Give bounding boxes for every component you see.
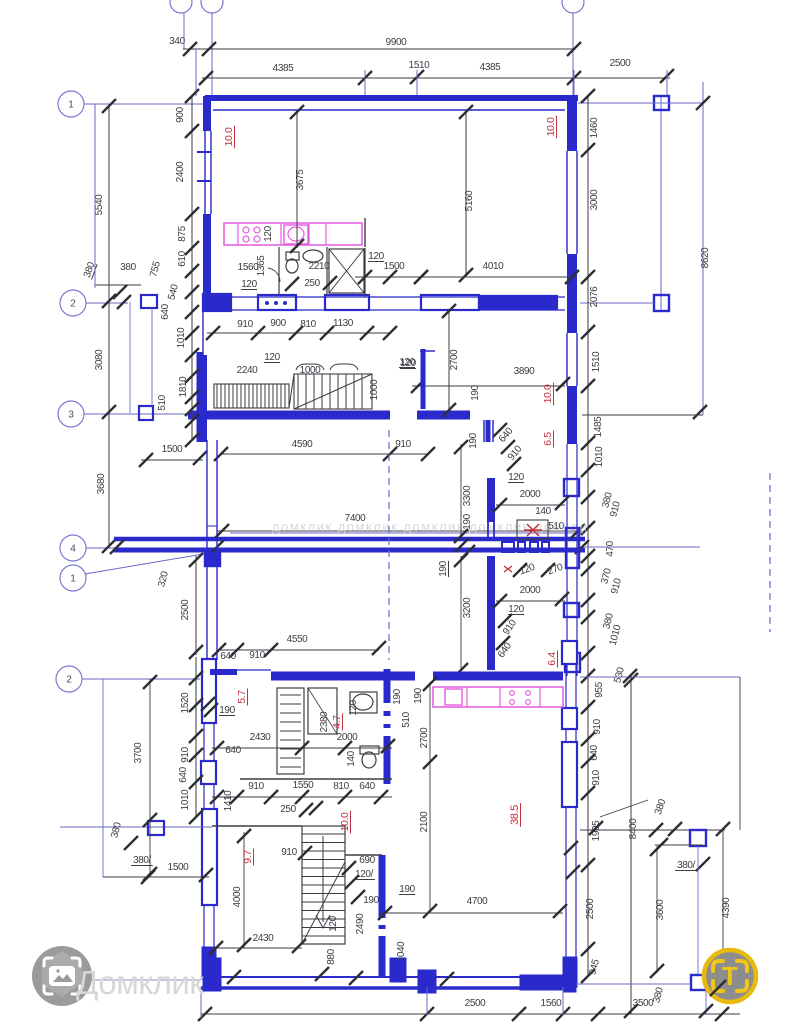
wall pier left 3 [202, 809, 217, 905]
svg-text:3890: 3890 [514, 366, 535, 377]
svg-text:340: 340 [169, 36, 185, 47]
dim 4000 line [243, 832, 245, 948]
axis span dims left [108, 104, 110, 303]
logo T bottom-right [704, 950, 756, 1002]
column bottom right [691, 975, 706, 990]
svg-text:3080: 3080 [94, 349, 105, 370]
svg-text:2400: 2400 [175, 161, 186, 182]
small wall right of stairs [421, 349, 426, 409]
bath walls thin [278, 247, 280, 295]
svg-text:910: 910 [592, 718, 603, 734]
svg-text:910: 910 [591, 769, 602, 785]
dim line 2430 [212, 747, 392, 749]
dim 7400 [217, 530, 582, 532]
column right axis-2 [654, 295, 669, 311]
svg-text:2500: 2500 [585, 898, 596, 919]
380 dims near axis2 [95, 284, 141, 286]
outer wall right upper (axis Б) [567, 96, 577, 151]
dim 3890 [412, 385, 565, 387]
svg-text:1: 1 [68, 100, 74, 111]
svg-text:1500: 1500 [162, 444, 183, 455]
svg-text:470: 470 [605, 540, 616, 556]
svg-text:380: 380 [120, 262, 136, 273]
wall pier left 1 [202, 659, 216, 723]
axis circle 3 left [58, 401, 84, 427]
axis2 ext right [580, 302, 654, 304]
svg-text:120: 120 [508, 604, 524, 615]
svg-text:3300: 3300 [462, 485, 473, 506]
margin line [94, 104, 96, 288]
svg-text:380/: 380/ [677, 860, 695, 871]
dim line 8400 [630, 677, 632, 1014]
svg-text:2500: 2500 [610, 58, 631, 69]
bottom dim row [201, 1013, 740, 1015]
svg-text:8400: 8400 [628, 818, 639, 839]
window lines top wall [237, 669, 271, 671]
svg-text:6.4: 6.4 [546, 652, 558, 666]
wall pier 4010 [479, 296, 557, 309]
svg-text:120: 120 [400, 358, 416, 369]
svg-text:1130: 1130 [333, 318, 354, 329]
svg-text:3000: 3000 [589, 189, 600, 210]
stair room left wall T [197, 352, 204, 442]
axis circle 1 left [58, 91, 84, 117]
interior wall y826 [212, 825, 302, 827]
stairs lower [302, 826, 345, 944]
axis circle 1b left [60, 565, 86, 591]
extension stubs top [364, 70, 366, 96]
long wall axis 1 [114, 548, 585, 553]
svg-text:2490: 2490 [355, 913, 366, 934]
svg-text:910: 910 [248, 781, 264, 792]
lower kitchen counter magenta [433, 687, 563, 707]
svg-text:4385: 4385 [480, 62, 501, 73]
wall x491 upper part [487, 478, 495, 522]
wall pier left 2 [201, 761, 216, 784]
svg-text:1010: 1010 [594, 446, 605, 467]
svg-text:1500: 1500 [168, 862, 189, 873]
bath block wall x387 [384, 669, 391, 784]
right 4390 upper part [739, 677, 741, 830]
right column line [660, 96, 662, 311]
lower flat top ext [580, 676, 740, 678]
svg-text:1485: 1485 [593, 416, 604, 437]
room dim 3675 [296, 110, 298, 248]
dim row 910/1550/810/640 [212, 796, 392, 798]
lower flat bottom wall hollow [201, 976, 576, 978]
svg-text:640: 640 [359, 781, 375, 792]
svg-text:190: 190 [470, 384, 481, 400]
svg-text:810: 810 [333, 781, 349, 792]
toilet upper [286, 252, 299, 260]
leader axis 2 [86, 302, 128, 304]
leader axis B [211, 13, 213, 96]
hatch box [517, 520, 548, 539]
svg-text:250: 250 [304, 278, 320, 289]
dim line 4390 [722, 829, 724, 989]
leader axis 1b diagonal [85, 552, 215, 574]
svg-text:2430: 2430 [250, 732, 271, 743]
dim 2700 interior [448, 309, 450, 412]
svg-text:4010: 4010 [483, 261, 504, 272]
svg-text:10.0: 10.0 [339, 812, 351, 831]
dim 2500 below axis4 [195, 556, 197, 655]
leader axis 3 [84, 413, 201, 415]
svg-text:3600: 3600 [655, 899, 666, 920]
svg-text:140: 140 [346, 750, 357, 766]
wardrobe tall [277, 688, 304, 774]
counter right edge [364, 218, 366, 247]
axis circle 4 left [60, 535, 86, 561]
leader axis 1 [84, 103, 207, 105]
dim line 1500/120 [355, 276, 421, 278]
svg-text:2380: 2380 [319, 711, 330, 732]
svg-text:1410: 1410 [223, 790, 234, 811]
axis circle 2b left [56, 666, 82, 692]
wall corner left bottom [202, 947, 216, 979]
svg-text:4: 4 [70, 544, 76, 555]
landing wall [345, 854, 382, 856]
window dash 1 [197, 151, 211, 153]
svg-text:140: 140 [535, 506, 551, 517]
svg-text:190: 190 [399, 884, 415, 895]
stair flight upper [214, 384, 289, 408]
bottom wall corner block right [563, 958, 576, 992]
outer wall top [205, 95, 578, 101]
svg-text:380/: 380/ [133, 855, 151, 866]
axis circle 2 left [60, 290, 86, 316]
axis circle top-left B [201, 0, 223, 13]
sink lower kitchen [445, 689, 462, 705]
dim 4010 [421, 276, 572, 278]
svg-text:120: 120 [328, 915, 339, 931]
svg-text:4550: 4550 [287, 634, 308, 645]
svg-text:190: 190 [413, 687, 424, 703]
svg-text:1510: 1510 [591, 351, 602, 372]
window box 1130a [325, 295, 369, 310]
leader axis A down [183, 13, 185, 49]
svg-text:4385: 4385 [273, 63, 294, 74]
svg-text:1040: 1040 [396, 941, 407, 962]
svg-text:1500: 1500 [384, 261, 405, 272]
overall 8620 line [702, 82, 704, 415]
svg-text:120: 120 [368, 251, 384, 262]
svg-text:120: 120 [508, 472, 524, 483]
bottom wall pier mid [418, 970, 436, 993]
svg-text:640: 640 [178, 766, 189, 782]
svg-text:190: 190 [392, 688, 403, 704]
dim 4700 [381, 912, 563, 914]
svg-text:900: 900 [175, 106, 186, 122]
band thin top [230, 532, 585, 534]
svg-text:9900: 9900 [386, 37, 407, 48]
window dash 2 [197, 180, 211, 182]
axis circle top-left A [170, 0, 192, 13]
lower-left margin dims [102, 679, 104, 877]
svg-text:2: 2 [66, 675, 72, 686]
svg-text:1010: 1010 [180, 789, 191, 810]
wall pier right 2 [562, 708, 577, 729]
svg-text:1810: 1810 [178, 376, 189, 397]
svg-text:190: 190 [363, 895, 379, 906]
dim row 4550 [219, 649, 379, 651]
slash over logo [710, 980, 726, 996]
bottom ext lines [200, 987, 202, 1018]
bottom wall block right [520, 975, 573, 990]
svg-text:3680: 3680 [96, 473, 107, 494]
svg-text:910: 910 [281, 847, 297, 858]
svg-text:4700: 4700 [467, 896, 488, 907]
svg-text:190: 190 [438, 560, 449, 576]
ext line left [60, 826, 212, 828]
svg-text:640: 640 [220, 651, 236, 662]
svg-text:2076: 2076 [589, 286, 600, 307]
svg-text:910: 910 [395, 439, 411, 450]
wall x491 lower part [487, 556, 495, 670]
washbasin upper [303, 250, 323, 262]
lower flat right wall hollow [565, 641, 567, 957]
line y830 [580, 829, 725, 831]
svg-text:3: 3 [68, 410, 74, 421]
dim row 4590/910 [221, 453, 428, 455]
wall corner right bottom [563, 957, 577, 987]
svg-text:1510: 1510 [409, 60, 430, 71]
svg-text:4000: 4000 [232, 886, 243, 907]
svg-text:120: 120 [264, 352, 280, 363]
bottom wall pier stair [390, 958, 406, 982]
leader axis 4 [86, 547, 228, 549]
right wall dim line lower flat [587, 676, 589, 976]
column right lower [690, 830, 706, 846]
svg-text:10.0: 10.0 [542, 384, 554, 403]
svg-text:2700: 2700 [419, 727, 430, 748]
kitchen counter magenta upper [224, 223, 362, 245]
stair flight 2 upper [294, 374, 372, 409]
svg-text:4.7: 4.7 [331, 715, 343, 729]
svg-text:1000: 1000 [300, 365, 321, 376]
svg-text:510: 510 [401, 711, 412, 727]
stair diagonal 2 [294, 374, 372, 409]
svg-text:10.0: 10.0 [545, 117, 557, 136]
svg-text:10.0: 10.0 [223, 127, 235, 146]
svg-text:5.7: 5.7 [236, 690, 248, 704]
svg-text:900: 900 [270, 318, 286, 329]
svg-text:2700: 2700 [449, 349, 460, 370]
room dim 5160 [465, 110, 467, 277]
dashed right [769, 473, 771, 632]
wall pier left [203, 294, 231, 311]
svg-text:510: 510 [548, 521, 564, 532]
right wall dim line [587, 96, 589, 676]
wall pier right 1 [562, 641, 577, 664]
washing machine X-box [329, 249, 364, 293]
svg-text:610: 610 [177, 250, 188, 266]
column tie lines [129, 302, 131, 413]
band ext right [585, 546, 700, 548]
stub wall lines [483, 420, 485, 442]
dim line 3300 [460, 444, 462, 539]
svg-text:640: 640 [225, 745, 241, 756]
svg-text:1550: 1550 [293, 780, 314, 791]
bottom wall corner block left [203, 958, 221, 991]
column top-right [654, 96, 669, 110]
svg-text:2000: 2000 [520, 585, 541, 596]
dim 1500 stair left [141, 459, 203, 461]
svg-text:910: 910 [249, 650, 265, 661]
dim line 3600 [656, 846, 658, 973]
cabinet 2 [308, 688, 337, 734]
svg-text:910: 910 [237, 319, 253, 330]
lower flat top wall [210, 669, 237, 675]
dashed centerline vertical [388, 430, 390, 660]
watermark icon bottom-left [85, 979, 201, 981]
column left axis3 [139, 406, 153, 420]
dim row 910/900/810/1130 [207, 332, 390, 334]
svg-text:4590: 4590 [292, 439, 313, 450]
svg-text:875: 875 [177, 225, 188, 241]
svg-text:2430: 2430 [253, 933, 274, 944]
svg-text:1: 1 [70, 574, 76, 585]
svg-text:190: 190 [219, 705, 235, 716]
svg-text:2: 2 [70, 299, 76, 310]
svg-text:120: 120 [241, 279, 257, 290]
svg-text:3675: 3675 [295, 169, 306, 190]
svg-text:4390: 4390 [721, 897, 732, 918]
bottom wall ext right [576, 983, 691, 985]
long wall axis 4 [114, 537, 585, 542]
leader axis 2b [82, 678, 200, 680]
svg-text:38.5: 38.5 [509, 805, 521, 825]
svg-text:2210: 2210 [309, 261, 330, 272]
svg-text:1460: 1460 [589, 117, 600, 138]
interior dim line kitchen [429, 682, 431, 913]
column left lower [148, 821, 164, 835]
svg-text:5160: 5160 [464, 190, 475, 211]
svg-text:1000: 1000 [369, 379, 380, 400]
washbasin lower [350, 692, 377, 713]
svg-text:8620: 8620 [700, 247, 711, 268]
stair-right wall lower [379, 855, 386, 976]
svg-text:190: 190 [468, 432, 479, 448]
top wall ext right [578, 102, 703, 104]
stair diagonal lower [302, 862, 345, 944]
svg-text:640: 640 [589, 744, 600, 760]
bath block bottom wall [240, 778, 392, 780]
svg-text:810: 810 [300, 319, 316, 330]
hob circles [243, 227, 249, 233]
ext line y415 right [582, 414, 703, 416]
dim line 3200 [460, 556, 462, 673]
svg-text:880: 880 [326, 948, 337, 964]
svg-text:510: 510 [157, 394, 168, 410]
svg-text:3700: 3700 [133, 742, 144, 763]
vertical wall lines mid [206, 440, 208, 556]
svg-text:1010: 1010 [176, 327, 187, 348]
left wall dim line [191, 96, 193, 440]
column left axis2 [141, 295, 157, 308]
svg-text:640: 640 [160, 303, 171, 319]
lower flat outer wall left hollow [203, 659, 205, 958]
svg-text:2240: 2240 [237, 365, 258, 376]
svg-text:120: 120 [263, 225, 274, 241]
svg-text:2000: 2000 [520, 489, 541, 500]
column ext line [697, 846, 699, 975]
svg-text:Домклик: Домклик [76, 964, 204, 1001]
leader axis Б [572, 13, 574, 96]
band door glyphs [502, 542, 514, 552]
dim row 9900/340 [183, 48, 574, 50]
svg-text:T: T [722, 961, 738, 991]
svg-text:1560: 1560 [541, 998, 562, 1009]
svg-text:5540: 5540 [94, 194, 105, 215]
sink upper kitchen [284, 225, 308, 244]
svg-text:690: 690 [359, 855, 375, 866]
wall pier right 3 [562, 742, 577, 807]
svg-text:домклик домклик домклик дом: домклик домклик домклик домклик домкли [272, 519, 588, 534]
svg-text:250: 250 [280, 804, 296, 815]
svg-text:2500: 2500 [180, 599, 191, 620]
wall sq on band [205, 553, 220, 566]
dim line left lower [195, 657, 197, 817]
interior wall row y=303 with windows [207, 296, 565, 298]
stair diagonal [289, 374, 294, 408]
window box 900 [258, 295, 296, 310]
svg-text:1365: 1365 [256, 255, 267, 276]
window box 1130b [421, 295, 479, 310]
stub wall x488 [486, 420, 491, 442]
svg-text:955: 955 [594, 681, 605, 697]
svg-text:2500: 2500 [465, 998, 486, 1009]
outer wall left upper [203, 96, 211, 131]
svg-text:3200: 3200 [462, 597, 473, 618]
svg-text:6.5: 6.5 [542, 432, 554, 446]
svg-text:2000: 2000 [337, 732, 358, 743]
axis circle top Б [562, 0, 584, 13]
interior wall row y=415 [190, 411, 390, 420]
svg-text:120: 120 [348, 699, 359, 715]
right wall 6.4 room rects [564, 479, 579, 496]
toilet lower [360, 746, 379, 754]
svg-text:190: 190 [462, 513, 473, 529]
svg-text:9.7: 9.7 [242, 850, 254, 864]
svg-text:2100: 2100 [419, 811, 430, 832]
dim row 4385/1510/4385/2500 [202, 77, 574, 79]
